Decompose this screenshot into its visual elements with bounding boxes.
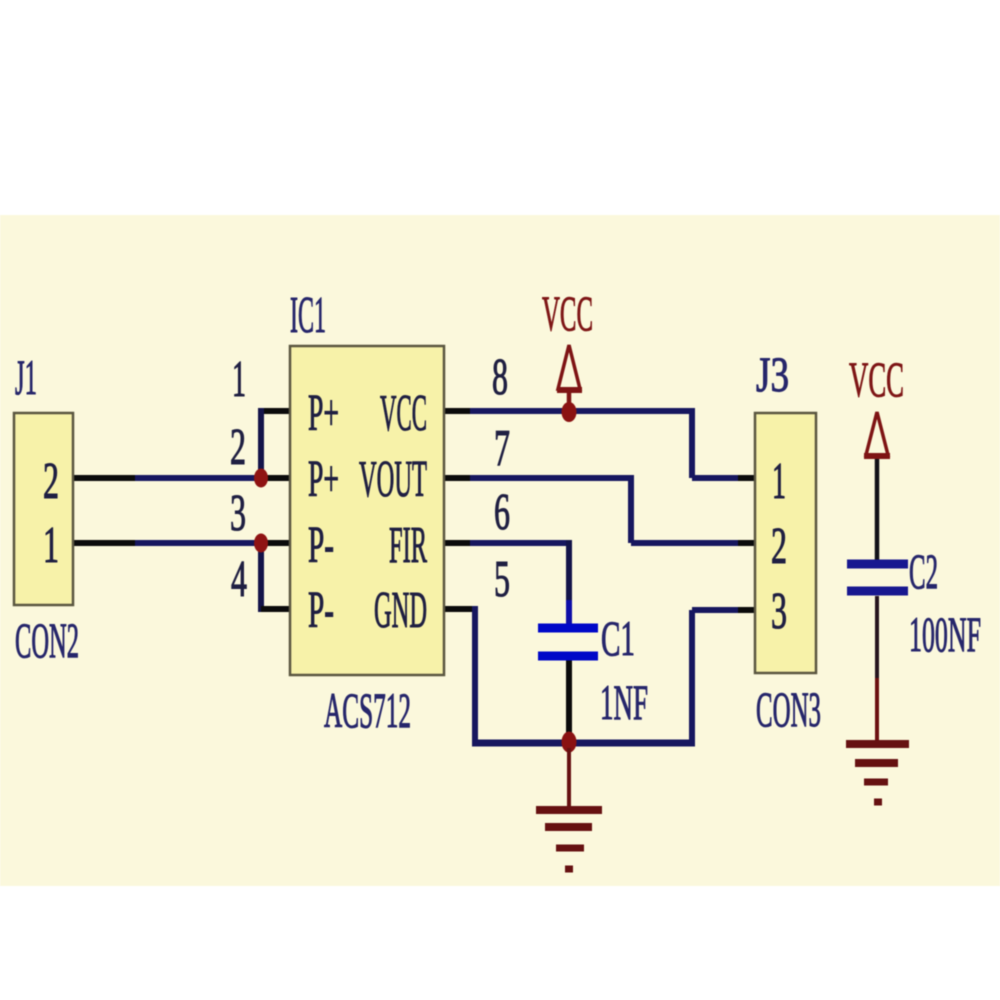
- svg-text:J3: J3: [756, 346, 789, 402]
- svg-text:P-: P-: [308, 582, 334, 639]
- svg-text:3: 3: [230, 485, 246, 542]
- svg-text:ACS712: ACS712: [324, 682, 411, 738]
- svg-text:GND: GND: [374, 582, 427, 639]
- svg-text:VOUT: VOUT: [359, 451, 427, 508]
- svg-text:CON3: CON3: [756, 681, 821, 737]
- svg-text:VCC: VCC: [542, 285, 593, 341]
- svg-text:VCC: VCC: [849, 351, 904, 407]
- svg-text:C1: C1: [601, 610, 635, 666]
- svg-text:1: 1: [772, 453, 786, 510]
- svg-text:J1: J1: [15, 349, 37, 405]
- svg-text:1: 1: [43, 517, 59, 574]
- svg-text:FIR: FIR: [389, 517, 427, 574]
- svg-text:C2: C2: [909, 543, 938, 599]
- svg-text:1: 1: [232, 351, 246, 408]
- svg-text:7: 7: [494, 420, 510, 477]
- svg-text:6: 6: [494, 484, 510, 541]
- svg-text:P+: P+: [308, 451, 339, 508]
- svg-text:2: 2: [230, 419, 246, 476]
- svg-text:2: 2: [771, 518, 787, 575]
- svg-text:5: 5: [494, 551, 510, 608]
- svg-text:4: 4: [231, 551, 247, 608]
- svg-text:8: 8: [492, 349, 508, 406]
- svg-text:P+: P+: [308, 385, 339, 442]
- svg-text:CON2: CON2: [15, 612, 79, 668]
- svg-text:2: 2: [43, 453, 59, 510]
- svg-text:VCC: VCC: [380, 385, 427, 442]
- svg-text:3: 3: [771, 583, 787, 640]
- svg-text:IC1: IC1: [290, 287, 326, 344]
- svg-text:1NF: 1NF: [600, 674, 648, 730]
- svg-text:100NF: 100NF: [909, 606, 981, 662]
- svg-text:P-: P-: [308, 517, 334, 574]
